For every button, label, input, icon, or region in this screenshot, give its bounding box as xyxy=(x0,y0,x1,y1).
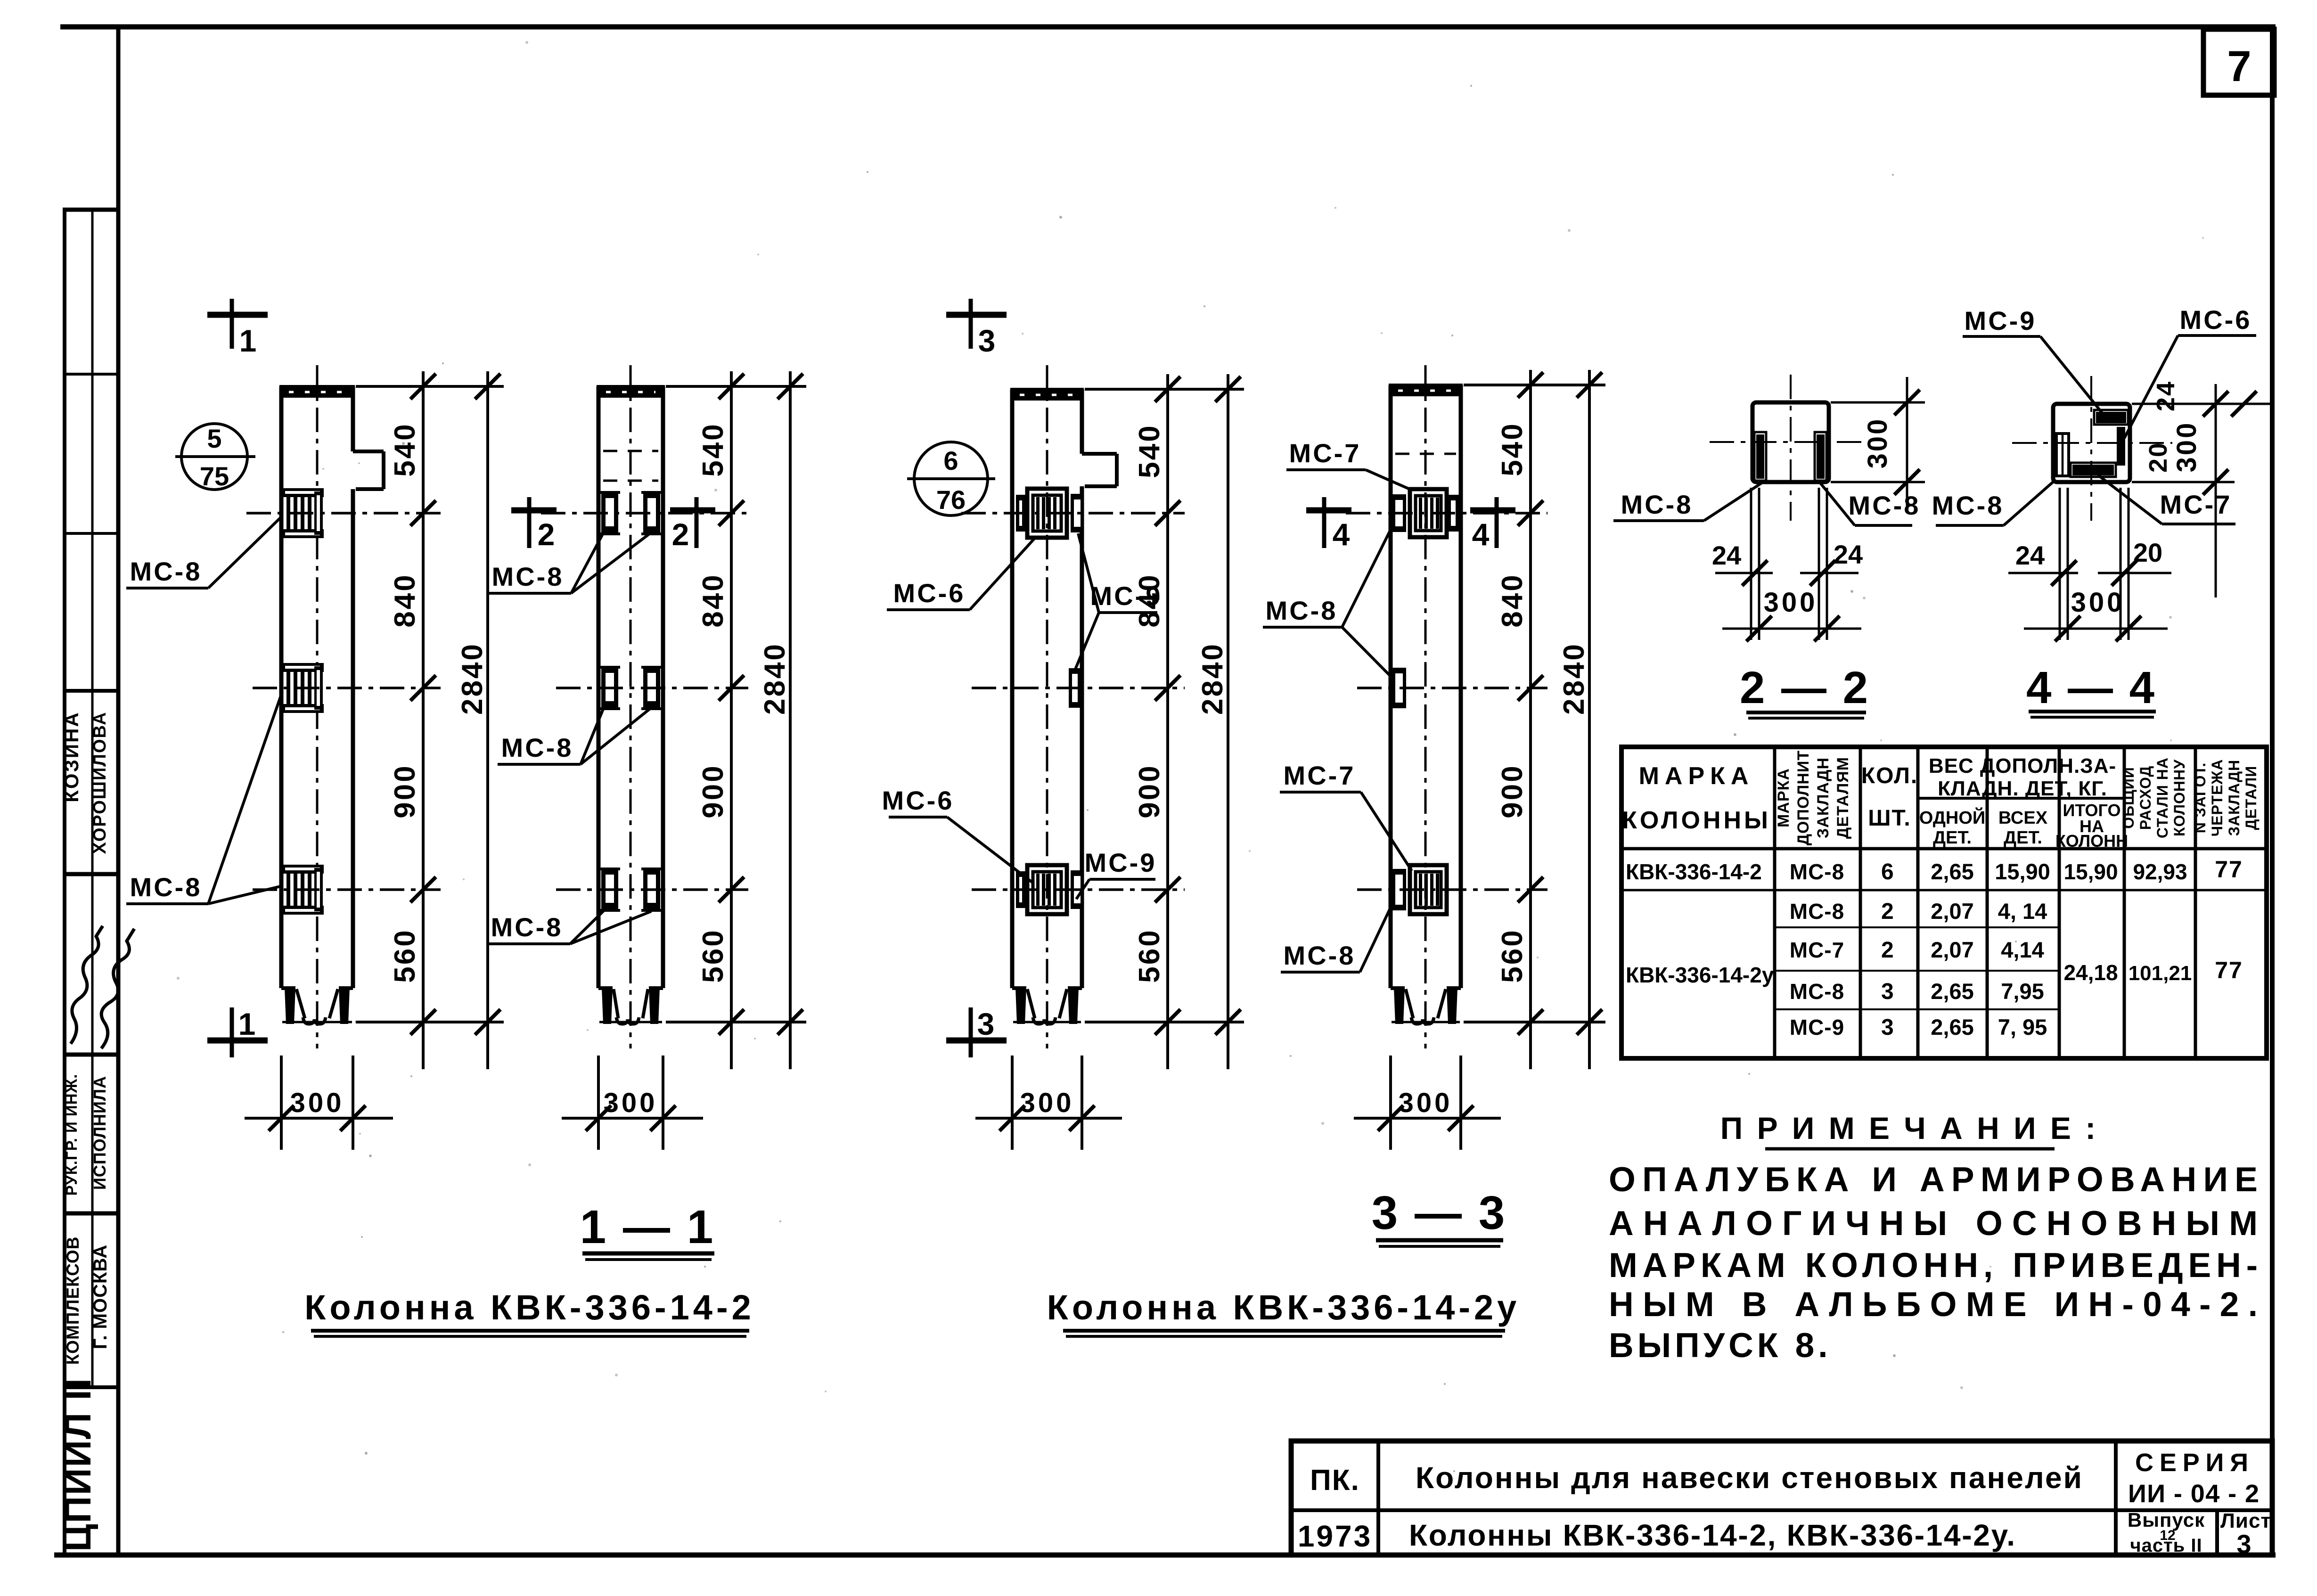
svg-text:Колонна КВК-336-14-2: Колонна КВК-336-14-2 xyxy=(304,1288,755,1327)
svg-text:3 — 3: 3 — 3 xyxy=(1372,1187,1507,1239)
svg-text:МС-8: МС-8 xyxy=(1932,491,2004,520)
svg-text:300: 300 xyxy=(1020,1088,1074,1118)
svg-text:900: 900 xyxy=(1496,764,1529,818)
svg-text:Колонны для навески стеновых п: Колонны для навески стеновых панелей xyxy=(1416,1461,2085,1495)
svg-text:2,65: 2,65 xyxy=(1931,979,1973,1004)
svg-text:2840: 2840 xyxy=(759,642,791,715)
svg-text:560: 560 xyxy=(697,928,729,982)
svg-text:П Р И М Е Ч А Н И Е :: П Р И М Е Ч А Н И Е : xyxy=(1720,1111,2098,1146)
svg-text:540: 540 xyxy=(1133,424,1166,478)
svg-text:840: 840 xyxy=(389,573,421,627)
svg-text:ЦПИИЛ II: ЦПИИЛ II xyxy=(57,1377,98,1552)
svg-text:МС-8: МС-8 xyxy=(130,557,202,586)
svg-text:2,07: 2,07 xyxy=(1931,937,1973,962)
svg-text:1 — 1: 1 — 1 xyxy=(580,1201,715,1253)
svg-text:N ЗАГОТ.: N ЗАГОТ. xyxy=(2192,762,2209,834)
svg-text:1: 1 xyxy=(239,323,257,358)
svg-text:МС-7: МС-7 xyxy=(1790,938,1844,962)
svg-text:101,21: 101,21 xyxy=(2129,962,2192,985)
svg-text:1973: 1973 xyxy=(1298,1519,1372,1553)
svg-text:МС-8: МС-8 xyxy=(1790,899,1844,924)
svg-text:Г. МОСКВА: Г. МОСКВА xyxy=(90,1244,111,1349)
svg-text:МС-6: МС-6 xyxy=(882,786,954,815)
svg-text:300: 300 xyxy=(1399,1088,1453,1118)
svg-text:2,65: 2,65 xyxy=(1931,859,1973,884)
svg-text:МС-9: МС-9 xyxy=(1965,306,2037,336)
svg-text:ЗАКЛАДН: ЗАКЛАДН xyxy=(1814,757,1832,838)
svg-text:МС-8: МС-8 xyxy=(492,562,564,591)
svg-text:540: 540 xyxy=(1496,422,1529,476)
svg-text:300: 300 xyxy=(1862,417,1893,469)
svg-text:МС-7: МС-7 xyxy=(1284,761,1356,790)
svg-text:300: 300 xyxy=(1764,587,1818,618)
svg-text:900: 900 xyxy=(389,764,421,818)
svg-text:2: 2 xyxy=(1881,938,1894,963)
svg-text:ШТ.: ШТ. xyxy=(1868,806,1911,831)
svg-text:77: 77 xyxy=(2215,856,2243,883)
svg-text:24: 24 xyxy=(2015,540,2045,570)
svg-text:МС-7: МС-7 xyxy=(2160,490,2232,519)
svg-text:20: 20 xyxy=(2133,538,2162,567)
svg-text:ДЕТАЛИ: ДЕТАЛИ xyxy=(2243,766,2260,830)
svg-text:900: 900 xyxy=(697,764,729,818)
svg-text:МС-9: МС-9 xyxy=(1085,848,1157,877)
svg-text:МС-8: МС-8 xyxy=(1849,491,1921,520)
svg-text:2 — 2: 2 — 2 xyxy=(1740,663,1870,713)
svg-text:840: 840 xyxy=(1496,573,1529,627)
svg-text:РАСХОД: РАСХОД xyxy=(2137,766,2154,830)
svg-text:МС-6: МС-6 xyxy=(2180,305,2252,335)
svg-text:Колонна КВК-336-14-2у: Колонна КВК-336-14-2у xyxy=(1047,1288,1521,1327)
svg-text:24: 24 xyxy=(2152,380,2180,411)
svg-text:7: 7 xyxy=(2227,42,2251,90)
svg-text:2: 2 xyxy=(1881,899,1894,924)
svg-text:КОЛ.: КОЛ. xyxy=(1861,763,1918,788)
svg-text:КОЛОННУ: КОЛОННУ xyxy=(2171,759,2188,836)
svg-text:4: 4 xyxy=(1472,517,1490,552)
svg-text:1: 1 xyxy=(238,1007,256,1041)
svg-text:6: 6 xyxy=(943,446,958,475)
svg-text:15,90: 15,90 xyxy=(2063,859,2118,884)
svg-text:ОПАЛУБКА И АРМИРОВАНИЕ: ОПАЛУБКА И АРМИРОВАНИЕ xyxy=(1609,1161,2261,1199)
svg-text:МС-8: МС-8 xyxy=(130,872,202,902)
svg-text:Колонны КВК-336-14-2, КВК-336-: Колонны КВК-336-14-2, КВК-336-14-2у. xyxy=(1409,1518,2017,1552)
svg-text:24: 24 xyxy=(1712,540,1741,570)
svg-text:7,95: 7,95 xyxy=(2001,979,2044,1004)
svg-text:3: 3 xyxy=(1881,1015,1894,1040)
svg-text:КОЛОННЫ: КОЛОННЫ xyxy=(1622,807,1771,834)
svg-text:20: 20 xyxy=(2144,442,2172,473)
svg-text:РУК.ГР. И ИНЖ.: РУК.ГР. И ИНЖ. xyxy=(63,1074,80,1196)
svg-text:ВЫПУСК 8.: ВЫПУСК 8. xyxy=(1609,1326,1832,1365)
svg-text:КОЗИНА: КОЗИНА xyxy=(60,711,82,802)
svg-text:ЗАКЛАДН: ЗАКЛАДН xyxy=(2226,760,2243,836)
svg-text:300: 300 xyxy=(2171,421,2202,473)
svg-text:560: 560 xyxy=(389,928,421,982)
svg-text:МС-8: МС-8 xyxy=(1621,490,1693,519)
svg-text:77: 77 xyxy=(2215,957,2243,983)
svg-text:МАРКАМ КОЛОНН, ПРИВЕДЕН-: МАРКАМ КОЛОНН, ПРИВЕДЕН- xyxy=(1609,1246,2261,1285)
svg-text:6: 6 xyxy=(1881,859,1894,884)
svg-text:5: 5 xyxy=(207,424,221,453)
svg-text:КЛАДН. ДЕТ, КГ.: КЛАДН. ДЕТ, КГ. xyxy=(1938,777,2107,800)
svg-text:ЧЕРТЕЖА: ЧЕРТЕЖА xyxy=(2209,759,2226,837)
svg-text:ПК.: ПК. xyxy=(1310,1464,1360,1497)
svg-text:900: 900 xyxy=(1133,764,1166,818)
svg-text:ВСЕХ: ВСЕХ xyxy=(1998,808,2048,828)
svg-text:СТАЛИ НА: СТАЛИ НА xyxy=(2154,757,2171,838)
svg-text:560: 560 xyxy=(1496,928,1529,982)
svg-text:2: 2 xyxy=(672,517,689,552)
svg-text:540: 540 xyxy=(697,422,729,476)
svg-text:ДЕТ.: ДЕТ. xyxy=(1933,828,1972,848)
svg-text:МС-6: МС-6 xyxy=(893,578,966,608)
svg-text:4 — 4: 4 — 4 xyxy=(2026,663,2156,713)
svg-text:ИИ - 04 - 2: ИИ - 04 - 2 xyxy=(2128,1480,2260,1508)
svg-text:ДОПОЛНИТ: ДОПОЛНИТ xyxy=(1794,750,1812,845)
svg-text:МС-7: МС-7 xyxy=(1289,438,1361,468)
svg-text:4: 4 xyxy=(1333,517,1350,552)
svg-text:540: 540 xyxy=(389,422,421,476)
svg-text:3: 3 xyxy=(2236,1529,2251,1559)
svg-text:300: 300 xyxy=(604,1088,658,1118)
svg-text:3: 3 xyxy=(978,323,996,358)
svg-text:2: 2 xyxy=(538,517,555,552)
svg-text:ИСПОЛНИЛА: ИСПОЛНИЛА xyxy=(90,1076,109,1190)
svg-text:ДЕТАЛЯМ: ДЕТАЛЯМ xyxy=(1834,757,1852,839)
svg-text:МС-9: МС-9 xyxy=(1790,1015,1844,1039)
svg-text:НЫМ В АЛЬБОМЕ ИН-04-2.: НЫМ В АЛЬБОМЕ ИН-04-2. xyxy=(1609,1285,2261,1324)
svg-text:КОЛОНН: КОЛОНН xyxy=(2055,831,2128,851)
svg-text:92,93: 92,93 xyxy=(2133,859,2187,884)
svg-text:300: 300 xyxy=(290,1088,344,1118)
svg-text:2840: 2840 xyxy=(1196,642,1229,715)
svg-text:840: 840 xyxy=(697,573,729,627)
svg-text:ДЕТ.: ДЕТ. xyxy=(2004,828,2042,848)
svg-text:МС-8: МС-8 xyxy=(501,733,573,762)
svg-text:СЕРИЯ: СЕРИЯ xyxy=(2135,1449,2253,1477)
svg-text:75: 75 xyxy=(200,461,229,491)
svg-text:ОБЩИИ: ОБЩИИ xyxy=(2120,767,2137,829)
svg-text:КВК-336-14-2: КВК-336-14-2 xyxy=(1626,859,1762,884)
svg-text:МАРКА: МАРКА xyxy=(1639,762,1754,790)
svg-text:3: 3 xyxy=(1881,979,1894,1004)
svg-text:4, 14: 4, 14 xyxy=(1998,899,2047,924)
svg-text:76: 76 xyxy=(936,485,966,515)
svg-text:4,14: 4,14 xyxy=(2001,937,2044,962)
svg-text:3: 3 xyxy=(977,1007,995,1041)
svg-text:часть II: часть II xyxy=(2130,1535,2202,1556)
svg-text:МС-8: МС-8 xyxy=(1790,859,1844,884)
svg-text:2840: 2840 xyxy=(1558,642,1590,715)
svg-text:2,07: 2,07 xyxy=(1931,899,1973,924)
svg-text:ВЕС ДОПОЛН.ЗА-: ВЕС ДОПОЛН.ЗА- xyxy=(1929,754,2116,778)
svg-text:ХОРОШИЛОВА: ХОРОШИЛОВА xyxy=(90,711,110,854)
svg-text:300: 300 xyxy=(2071,587,2125,618)
svg-text:МС-8: МС-8 xyxy=(1790,979,1844,1004)
svg-text:2,65: 2,65 xyxy=(1931,1015,1973,1039)
svg-text:КВК-336-14-2у: КВК-336-14-2у xyxy=(1626,963,1774,987)
svg-text:МАРКА: МАРКА xyxy=(1775,768,1793,827)
svg-text:560: 560 xyxy=(1133,928,1166,982)
svg-text:15,90: 15,90 xyxy=(1995,859,2050,884)
svg-text:24,18: 24,18 xyxy=(2063,960,2118,985)
svg-text:ОДНОЙ: ОДНОЙ xyxy=(1919,807,1985,828)
svg-text:2840: 2840 xyxy=(456,642,489,715)
svg-text:МС-8: МС-8 xyxy=(1284,941,1356,970)
svg-text:КОМПЛЕКСОВ: КОМПЛЕКСОВ xyxy=(63,1236,82,1365)
svg-text:МС-8: МС-8 xyxy=(1266,596,1338,625)
svg-text:МС-9: МС-9 xyxy=(1090,581,1163,611)
svg-text:7, 95: 7, 95 xyxy=(1998,1015,2047,1039)
svg-text:24: 24 xyxy=(1834,540,1863,569)
svg-text:МС-8: МС-8 xyxy=(491,912,563,942)
